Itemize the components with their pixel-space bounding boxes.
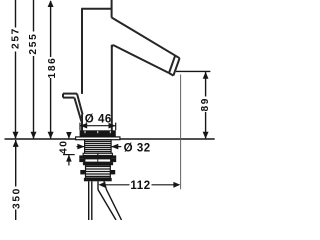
up arrow 350: [13, 140, 19, 147]
up arrow 186 top: [48, 0, 54, 7]
112 arrows: [98, 182, 105, 188]
112 dimension: [105, 184, 174, 186]
body right edge lower: [111, 45, 113, 131]
lever grip top: [63, 93, 77, 95]
spout end cap outer: [173, 58, 179, 75]
svg-text:40: 40: [59, 139, 70, 154]
body top edge: [81, 8, 112, 10]
lower striped block: [86, 165, 111, 178]
svg-text:255: 255: [28, 33, 39, 55]
svg-text:112: 112: [130, 180, 150, 192]
40 arrows: [66, 132, 72, 139]
faucet outline: [63, 0, 180, 131]
dim line 350: [15, 140, 17, 187]
down arrows at deck: [13, 132, 19, 139]
dim line 255: [33, 0, 35, 32]
top extension / body right upper edge: [111, 0, 113, 18]
dia46 dimension: [80, 123, 116, 131]
hoses: [89, 181, 122, 220]
lever left cap: [62, 94, 64, 98]
dim line 257: [15, 0, 17, 28]
outlet vertical extension line: [180, 75, 182, 190]
svg-text:257: 257: [11, 27, 22, 49]
spout bottom edge: [112, 45, 169, 73]
lever tail bottom diagonal: [74, 98, 81, 122]
dia46 arrows: [80, 123, 87, 129]
escutcheon disc: [80, 130, 116, 137]
center tick upper: [97, 153, 99, 156]
hose nut corner right: [110, 170, 115, 174]
arrowheads: [13, 0, 209, 188]
svg-text:186: 186: [47, 56, 58, 78]
nut band (white with corner blocks): [85, 159, 111, 162]
dim line 89: [205, 71, 207, 96]
dia32 arrows: [77, 144, 84, 150]
up arrow 89: [203, 72, 209, 79]
svg-text:Ø 32: Ø 32: [124, 142, 151, 154]
deck line right: [120, 138, 215, 140]
lever grip bottom: [63, 97, 74, 99]
deck line left: [5, 138, 76, 140]
black band 1: [79, 155, 116, 159]
center tick lower: [97, 159, 99, 162]
40 dimension: [63, 132, 75, 166]
outlet extension line: [176, 70, 210, 72]
svg-text:Ø 46: Ø 46: [85, 113, 112, 125]
hose nut corner left: [80, 170, 85, 174]
dim line 186: [50, 1, 52, 57]
spout end cap inner: [169, 56, 175, 73]
washer band: [83, 153, 112, 155]
spout top edge: [112, 18, 180, 59]
svg-text:350: 350: [12, 187, 23, 209]
threaded shank: [85, 140, 112, 154]
black band 2: [83, 162, 113, 165]
dia32 leader: [111, 146, 121, 148]
svg-text:89: 89: [200, 97, 211, 112]
body left edge lower: [81, 115, 83, 131]
black band 3: [84, 178, 112, 181]
lever tail top diagonal: [77, 94, 83, 115]
escutcheon flange: [76, 137, 120, 140]
spout end cap bottom: [169, 73, 173, 76]
body left edge upper: [81, 9, 83, 94]
